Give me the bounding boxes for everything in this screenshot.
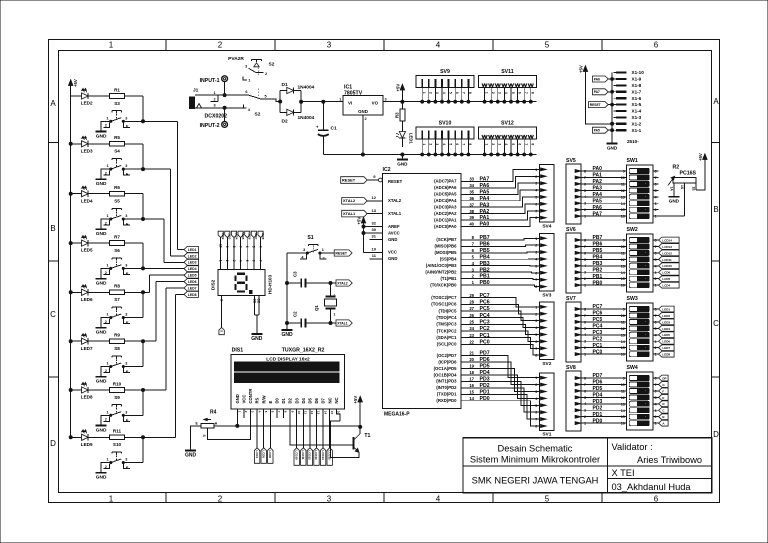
svg-text:1E: 1E [692,187,696,192]
svg-text:PB2: PB2 [593,267,603,273]
svg-text:13: 13 [317,411,321,415]
wire port row [461,218,540,228]
svg-text:8: 8 [468,143,472,145]
svg-text:SV11: SV11 [501,69,514,75]
svg-text:14: 14 [323,411,327,415]
svg-text:GND: GND [96,133,107,139]
svg-text:2: 2 [365,117,367,121]
wire port row [461,254,540,260]
wire port rows [581,235,659,286]
svg-text:SV6: SV6 [566,227,576,233]
node flag RESET (IC2) [341,174,383,183]
svg-text:SW4: SW4 [627,365,638,371]
svg-text:PD1: PD1 [593,412,603,418]
svg-text:PA7: PA7 [480,177,490,183]
svg-text:7: 7 [258,260,262,262]
svg-text:7: 7 [655,383,657,387]
svg-text:CONTR: CONTR [248,389,253,404]
+5V arrow IC2 AVCC [357,217,366,253]
svg-text:INPUT-1: INPUT-1 [200,78,220,84]
svg-text:7: 7 [655,245,657,249]
svg-text:3: 3 [125,263,127,267]
svg-text:PB7: PB7 [480,235,490,241]
svg-text:(OC1A)PD5: (OC1A)PD5 [434,366,458,371]
svg-text:28: 28 [469,299,474,304]
svg-text:3: 3 [498,143,502,145]
svg-text:S10: S10 [113,442,122,447]
svg-text:LED5: LED5 [662,333,670,337]
svg-text:GND: GND [96,475,107,481]
svg-text:38: 38 [469,209,474,214]
svg-text:C1: C1 [331,126,337,132]
svg-text:11: 11 [621,389,625,393]
svg-text:AREF: AREF [388,224,400,229]
node flag PA7 [593,89,614,95]
svg-text:5: 5 [545,41,550,50]
svg-text:15: 15 [621,208,625,212]
node flags right of SW3 [659,306,675,357]
svg-text:D6: D6 [314,397,319,403]
wire port row [461,204,540,215]
wire port row [461,169,540,182]
connector SV6 [566,227,587,293]
wire port rows [581,373,659,424]
svg-text:INPUT-2: INPUT-2 [200,123,220,129]
svg-text:SV10: SV10 [439,120,452,126]
svg-text:3: 3 [214,104,216,108]
svg-text:5: 5 [265,94,267,98]
svg-text:PD1: PD1 [480,389,490,395]
svg-text:3: 3 [125,164,127,168]
svg-text:PB6: PB6 [480,241,490,247]
svg-text:12: 12 [621,327,625,331]
svg-text:PA5: PA5 [480,189,490,195]
svg-text:(INT0)PD2: (INT0)PD2 [436,385,457,390]
svg-text:6: 6 [252,260,256,262]
svg-text:2: 2 [535,312,537,316]
svg-text:PD5: PD5 [593,386,603,392]
display DIS2 HD-H103 7-segment [211,270,273,296]
svg-text:(TCK)PC2: (TCK)PC2 [437,328,457,333]
wire 7seg pin [232,238,236,270]
display DIS1 LCD TUXGR_16X2_R2 [231,348,345,410]
svg-text:F: F [662,389,664,393]
svg-text:1: 1 [535,376,537,380]
svg-text:LED2: LED2 [188,254,197,258]
svg-text:PD2: PD2 [480,383,490,389]
svg-text:7: 7 [462,92,466,94]
svg-text:7: 7 [535,278,537,282]
switch block SW3 [621,296,658,361]
wire +5V bus to SV11 [402,101,536,103]
wire port row [461,370,540,398]
svg-text:PC3: PC3 [480,319,490,325]
wire row [69,294,184,462]
svg-text:PD7: PD7 [593,373,603,379]
svg-text:Validator :: Validator : [612,442,653,452]
svg-text:2: 2 [218,495,223,504]
svg-text:27: 27 [469,306,474,311]
wire input rails [195,82,247,122]
svg-text:LED4: LED4 [81,198,93,203]
svg-text:Desain Schematic: Desain Schematic [498,444,573,454]
svg-text:SV1: SV1 [542,432,551,438]
svg-text:T1: T1 [364,433,370,439]
capacitor C3 [286,271,333,288]
svg-text:PD6: PD6 [480,357,490,363]
svg-text:GND: GND [96,280,107,286]
node LCD control flags [254,448,273,464]
svg-text:PC1: PC1 [593,343,603,349]
svg-text:25: 25 [469,319,474,324]
svg-text:RESET: RESET [388,179,403,184]
svg-text:15: 15 [621,277,625,281]
svg-text:3: 3 [535,251,537,255]
svg-text:6: 6 [455,143,459,145]
switch S5 [101,199,130,230]
svg-text:5: 5 [511,143,515,145]
svg-text:PA1: PA1 [593,173,603,179]
svg-text:1: 1 [106,164,108,168]
svg-text:34: 34 [469,183,474,188]
node flag PA6 [593,76,614,82]
svg-text:GND: GND [235,394,240,403]
svg-text:PC7: PC7 [593,304,603,310]
svg-text:13: 13 [621,195,625,199]
svg-text:6: 6 [455,92,459,94]
svg-text:1: 1 [484,143,488,145]
svg-text:7: 7 [462,143,466,145]
svg-text:R3: R3 [395,112,400,118]
svg-text:8: 8 [468,92,472,94]
svg-text:5: 5 [535,264,537,268]
svg-text:2: 2 [265,72,267,76]
svg-text:LED5: LED5 [81,248,93,253]
svg-text:15: 15 [621,415,625,419]
svg-text:GND: GND [358,109,368,114]
svg-text:PC3: PC3 [593,330,603,336]
svg-text:(INT1)PD3: (INT1)PD3 [436,379,457,384]
svg-text:7: 7 [524,92,528,94]
wire port row [461,261,540,267]
svg-text:(MOSI)PB5: (MOSI)PB5 [435,250,458,255]
svg-text:1: 1 [484,92,488,94]
svg-text:R7: R7 [114,235,120,240]
svg-text:11: 11 [621,320,625,324]
svg-text:SV4: SV4 [542,223,551,229]
connector SV5 [566,158,587,224]
svg-text:LED3: LED3 [81,148,93,153]
svg-text:(TDO)PC4: (TDO)PC4 [436,315,457,320]
svg-text:SV7: SV7 [566,296,576,302]
svg-text:(SS)PB4: (SS)PB4 [440,257,457,262]
svg-text:3: 3 [435,143,439,145]
svg-text:LED1: LED1 [662,307,670,311]
svg-text:2: 2 [535,175,537,179]
svg-text:12: 12 [621,396,625,400]
svg-text:+5V: +5V [353,396,358,404]
ground 7seg [251,334,263,342]
svg-text:1: 1 [655,353,657,357]
svg-text:3: 3 [327,495,332,504]
svg-text:PD4: PD4 [593,393,603,399]
node flag XTAL1 (IC2) [342,208,383,217]
wire row [69,275,184,317]
svg-text:1S: 1S [680,185,684,190]
svg-text:GND: GND [388,256,397,261]
switch S7 [101,297,130,328]
svg-text:3: 3 [535,390,537,394]
svg-text:1: 1 [422,92,426,94]
svg-text:TUXGR_16X2_R2: TUXGR_16X2_R2 [282,348,325,354]
svg-text:9: 9 [623,377,625,381]
svg-text:15: 15 [469,389,474,394]
svg-text:E: E [126,370,129,374]
svg-text:S1: S1 [307,235,313,241]
svg-text:5: 5 [535,196,537,200]
svg-text:LCD10: LCD10 [294,450,298,460]
svg-text:E: E [126,125,129,129]
ground [96,279,107,287]
node LED5 flag [184,272,199,278]
svg-text:4: 4 [535,326,537,330]
svg-text:XTAL1: XTAL1 [343,211,356,216]
svg-text:PA7: PA7 [593,211,603,217]
svg-text:2: 2 [429,143,433,145]
svg-text:2: 2 [655,415,657,419]
ground [96,473,107,481]
svg-text:PA5: PA5 [594,129,600,133]
node LED1 flag [184,247,199,253]
ground [96,328,107,336]
svg-text:NC: NC [327,397,332,403]
svg-text:6: 6 [535,202,537,206]
svg-text:8: 8 [535,425,537,429]
svg-text:1: 1 [214,91,216,95]
svg-text:R/W: R/W [261,395,266,403]
wire port row [461,339,540,355]
wire 7seg pin [245,238,249,270]
svg-text:+5V: +5V [698,153,703,161]
svg-text:4: 4 [258,246,262,248]
svg-text:RESET: RESET [590,103,601,107]
svg-text:PD6: PD6 [593,380,603,386]
svg-text:2: 2 [535,244,537,248]
svg-text:LCD4: LCD4 [662,284,670,288]
svg-text:XTAL2: XTAL2 [343,198,356,203]
svg-text:6: 6 [655,320,657,324]
svg-text:PA2: PA2 [480,209,490,215]
svg-text:16: 16 [621,284,625,288]
svg-text:2: 2 [491,143,495,145]
svg-text:(TXD)PD1: (TXD)PD1 [437,392,457,397]
svg-text:(T1)PB1: (T1)PB1 [440,276,457,281]
ground R2 [668,197,679,204]
IC2 internal pin names [388,179,457,403]
wire port row [461,357,540,384]
ground X1 [607,141,618,151]
wire port row [461,351,540,378]
svg-text:3: 3 [385,97,387,101]
svg-text:1: 1 [106,458,108,462]
svg-text:10: 10 [621,176,625,180]
svg-text:16: 16 [469,383,474,388]
node 7seg segment flag [225,231,232,240]
svg-text:LCD11: LCD11 [662,258,672,262]
svg-text:9: 9 [623,308,625,312]
node flag RESET [589,102,614,108]
svg-text:LED6: LED6 [188,280,197,284]
transistor T1 [331,421,371,457]
node flag XTAL2 (IC2) [342,195,383,204]
svg-text:1: 1 [106,263,108,267]
svg-text:8: 8 [655,239,657,243]
svg-text:PA5: PA5 [593,198,603,204]
svg-text:S2: S2 [255,112,261,118]
svg-text:32: 32 [372,221,377,226]
svg-text:+5V: +5V [578,65,583,73]
svg-text:(TOSC2)PC7: (TOSC2)PC7 [431,295,457,300]
svg-text:12: 12 [621,189,625,193]
wire R2 wiper [659,215,685,217]
svg-text:2: 2 [655,208,657,212]
svg-text:VCC: VCC [242,395,247,404]
node LED3 flag [184,259,199,265]
svg-text:1: 1 [106,362,108,366]
svg-text:PC2: PC2 [593,336,603,342]
svg-text:13: 13 [621,402,625,406]
wire S1 to gnd bus [287,253,307,330]
svg-text:R8: R8 [114,284,120,289]
ground [96,426,107,434]
svg-text:Sistem Minimum Mikrokontroler: Sistem Minimum Mikrokontroler [470,455,600,465]
ground crystal bus [281,330,293,338]
svg-text:4: 4 [238,260,242,262]
svg-text:X1-1: X1-1 [632,128,642,133]
svg-text:6: 6 [654,495,659,504]
svg-text:24: 24 [469,326,474,331]
svg-text:6: 6 [535,340,537,344]
svg-text:8: 8 [655,170,657,174]
svg-text:R1: R1 [114,87,120,92]
node flag XTAL2 (crystal) [331,280,353,286]
svg-text:8: 8 [232,246,236,248]
svg-text:3: 3 [655,409,657,413]
svg-text:SV2: SV2 [542,361,551,367]
svg-text:4: 4 [442,143,446,145]
svg-text:C3: C3 [293,271,298,277]
svg-text:LED6: LED6 [81,297,93,302]
svg-text:PB6: PB6 [593,242,603,248]
node flags right of SW4 [659,375,669,426]
wire port rows [581,166,659,217]
svg-text:10: 10 [297,411,301,415]
+5V arrow at regulator output [395,84,404,110]
svg-text:PC6: PC6 [593,311,603,317]
svg-text:PA4: PA4 [593,192,603,198]
wire port row [461,299,540,313]
svg-text:LCD6: LCD6 [662,271,670,275]
svg-text:PC1: PC1 [480,333,490,339]
svg-text:16: 16 [621,353,625,357]
svg-text:4: 4 [442,92,446,94]
node LCD data flags [294,448,332,466]
svg-text:PC0: PC0 [593,349,603,355]
node INPUT-2 [200,122,228,130]
svg-text:(ADC1)PA1: (ADC1)PA1 [434,217,457,222]
svg-text:1: 1 [535,305,537,309]
svg-text:S7: S7 [114,297,120,302]
svg-text:DCX0202: DCX0202 [205,114,228,120]
svg-text:PB5: PB5 [480,248,490,254]
svg-text:RESET: RESET [335,251,348,255]
wire port row [461,306,540,321]
svg-text:X TEI: X TEI [612,468,635,478]
svg-text:(TDI)PC5: (TDI)PC5 [439,308,458,313]
svg-text:1: 1 [106,313,108,317]
svg-text:5: 5 [655,258,657,262]
svg-text:2: 2 [535,383,537,387]
svg-text:VCC: VCC [388,250,397,255]
svg-text:D2: D2 [282,119,288,125]
svg-text:PC4: PC4 [593,324,603,330]
svg-text:1: 1 [655,215,657,219]
wire row [69,242,184,270]
wire AREF/AVCC/VCC [362,221,383,259]
svg-text:D: D [50,439,56,448]
wire 7seg pin [225,238,229,270]
svg-text:C: C [50,310,56,319]
svg-text:LED2: LED2 [81,101,93,106]
wire port row [461,377,540,406]
svg-text:+5V: +5V [357,217,362,225]
wire port row [461,389,540,419]
svg-text:39: 39 [469,215,474,220]
svg-text:(ADC7)PA7: (ADC7)PA7 [434,179,457,184]
connector SV2 [535,302,554,367]
svg-text:3: 3 [125,214,127,218]
svg-text:(ICP)PD6: (ICP)PD6 [438,359,457,364]
connector SV9 [416,69,474,103]
svg-text:GND: GND [397,161,408,166]
svg-text:D: D [713,430,719,439]
LED LED7 [81,334,93,351]
resistor R1 [110,87,125,98]
wire port row [461,183,540,195]
svg-text:PA1: PA1 [480,215,490,221]
svg-text:(ADC0)PA0: (ADC0)PA0 [434,224,457,229]
svg-text:RS: RS [255,397,260,403]
resistor R9 [110,333,125,344]
svg-text:PA3: PA3 [480,202,490,208]
svg-text:LCD10: LCD10 [662,264,672,268]
ground [96,132,107,140]
svg-text:3: 3 [232,260,236,262]
wire port row [461,248,540,254]
svg-text:LED2: LED2 [662,314,670,318]
LED LED5 [81,236,93,253]
switch block SW1 [621,158,658,223]
svg-text:(ADC4)PA4: (ADC4)PA4 [434,198,457,203]
connector SV3 [535,234,554,299]
svg-text:1: 1 [655,422,657,426]
svg-text:5: 5 [535,333,537,337]
wire port row [461,267,540,273]
svg-text:SW1: SW1 [627,158,638,164]
svg-text:XTAL1: XTAL1 [337,321,348,325]
svg-text:3: 3 [125,410,127,414]
switch S2 (PVA2R) upper pole [228,56,275,82]
